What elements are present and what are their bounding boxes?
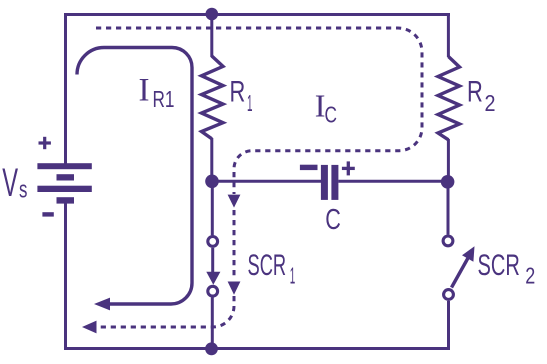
svg-text:s: s <box>19 176 27 203</box>
svg-text:SCR: SCR <box>478 249 520 282</box>
wire left vertical lower <box>64 203 67 350</box>
arrow on I_C path (lower, pointing down) <box>228 282 241 295</box>
svg-text:1: 1 <box>290 263 296 289</box>
resistor R2 <box>438 57 460 140</box>
arrow on I_C path (bottom, pointing left) <box>82 321 97 334</box>
svg-text:1: 1 <box>247 90 253 116</box>
arrow on I_C path (upper, pointing down) <box>228 195 241 208</box>
label + (capacitor positive) <box>342 161 355 175</box>
label + (battery positive) <box>39 137 51 149</box>
svg-text:I: I <box>139 73 150 109</box>
node middle-right junction <box>441 175 455 189</box>
node top junction <box>206 8 219 21</box>
wire top horizontal <box>64 13 450 16</box>
svg-text:2: 2 <box>485 90 496 116</box>
wire capacitor left lead <box>212 180 321 183</box>
svg-text:V: V <box>2 161 18 205</box>
resistor R1 <box>202 56 224 139</box>
wire bottom horizontal <box>64 347 450 350</box>
label - (battery negative) <box>42 212 53 216</box>
battery Vs <box>37 163 91 203</box>
SCR1 switch (closed, conducting) <box>206 237 220 297</box>
wire right vertical from SCR2 to bottom <box>447 301 450 350</box>
current path I_R1 (solid loop with arrow) <box>77 48 192 311</box>
wire right vertical from node to SCR2 <box>447 182 450 235</box>
wire middle vertical from SCR1 to bottom node <box>211 298 214 350</box>
node bottom junction <box>205 342 218 355</box>
SCR2 switch (open) <box>443 236 474 299</box>
wire capacitor right lead <box>338 180 447 183</box>
svg-text:C: C <box>325 102 338 128</box>
wire right vertical from R2 to node <box>447 139 450 182</box>
svg-text:SCR: SCR <box>248 249 287 282</box>
wire middle vertical from R1 to mid node <box>210 138 213 181</box>
wire middle vertical from top node to R1 <box>210 14 213 57</box>
node middle-left junction <box>205 175 219 189</box>
capacitor C plates <box>321 165 339 200</box>
wire right vertical from top to R2 <box>447 13 450 57</box>
current path I_C (dotted loop with arrows) <box>96 28 422 327</box>
label - (capacitor negative) <box>300 165 318 170</box>
svg-text:2: 2 <box>525 263 535 289</box>
wire left vertical upper <box>64 13 67 164</box>
svg-text:C: C <box>325 204 341 236</box>
svg-text:R: R <box>230 76 246 109</box>
svg-text:R: R <box>467 76 483 109</box>
svg-text:R1: R1 <box>153 86 175 112</box>
wire middle vertical from node to SCR1 <box>211 181 214 235</box>
